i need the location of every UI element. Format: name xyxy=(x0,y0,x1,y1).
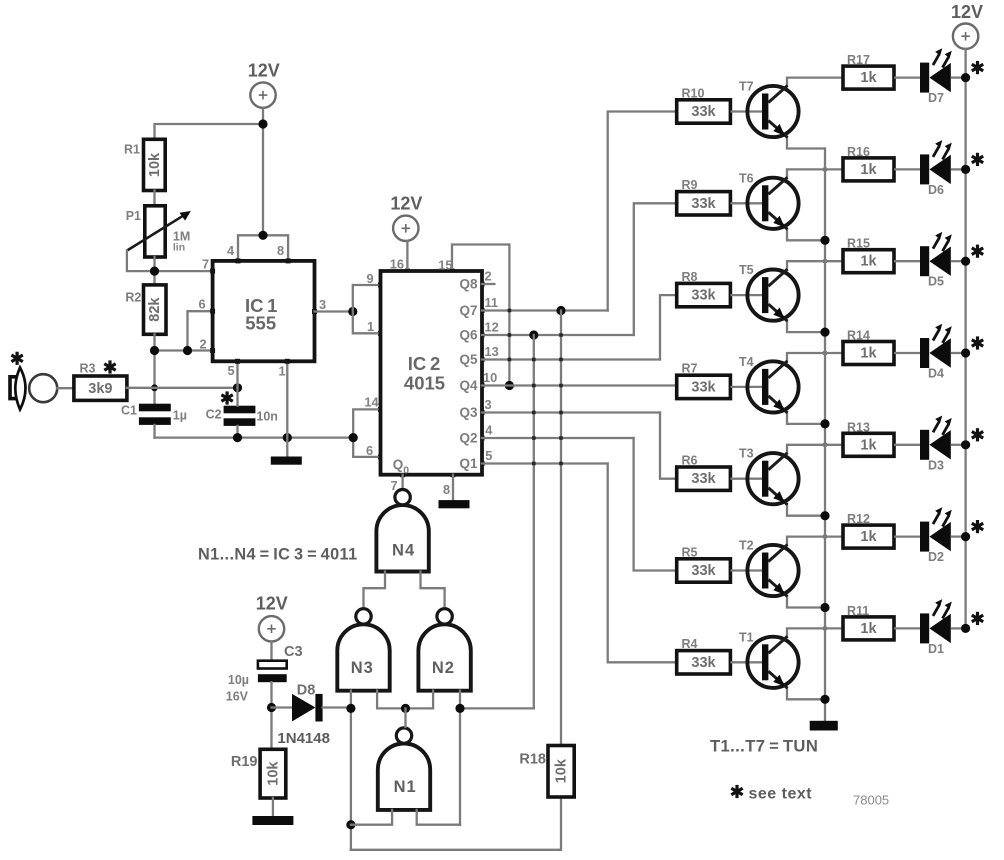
wire bottom rail to R18 xyxy=(351,797,561,850)
resistor R16 xyxy=(843,145,894,181)
node T7 emitter xyxy=(820,236,829,245)
gate N3 xyxy=(337,609,389,691)
svg-text:Q3: Q3 xyxy=(459,405,478,420)
node N1 output xyxy=(401,704,410,713)
svg-text:T5: T5 xyxy=(739,263,754,277)
svg-text:P1: P1 xyxy=(126,209,141,223)
svg-text:6: 6 xyxy=(198,297,205,312)
pin ticks IC2 xyxy=(378,269,485,478)
node C2/gnd xyxy=(233,433,242,442)
svg-text:R9: R9 xyxy=(682,178,698,192)
potentiometer P1 xyxy=(126,206,191,257)
wire N3 right input to N1 output xyxy=(377,691,433,709)
svg-text:D2: D2 xyxy=(928,550,944,564)
node N3 left / D8 xyxy=(346,704,355,713)
transistor T6 xyxy=(730,169,843,240)
svg-text:8: 8 xyxy=(443,482,450,497)
resistor R9 xyxy=(677,178,731,215)
wire Q7 up to R10 xyxy=(608,112,677,311)
svg-text:D3: D3 xyxy=(928,458,944,472)
svg-text:9: 9 xyxy=(366,271,373,286)
asterisk D6 xyxy=(972,153,983,166)
wire ground rail xyxy=(155,436,354,438)
resistor R12 xyxy=(843,512,894,548)
svg-text:R4: R4 xyxy=(682,637,698,651)
transistor T7 xyxy=(730,78,843,149)
wire Q6 down to gate rail xyxy=(460,335,534,708)
svg-text:8: 8 xyxy=(277,243,284,258)
svg-text:10µ: 10µ xyxy=(228,673,249,687)
svg-text:7: 7 xyxy=(202,257,209,272)
svg-text:lin: lin xyxy=(173,242,185,254)
wire Q7 down to R18 xyxy=(560,311,562,746)
wire Q2 down to R5 xyxy=(634,438,677,571)
svg-text:5: 5 xyxy=(485,448,492,463)
node D6 rail xyxy=(961,165,970,174)
IC1 555 xyxy=(213,261,315,361)
svg-text:4015: 4015 xyxy=(404,373,445,394)
input probe symbol xyxy=(10,352,57,410)
gate N1 xyxy=(378,728,430,810)
node T4 emitter xyxy=(820,511,829,520)
capacitor C1 xyxy=(121,404,187,425)
svg-text:R17: R17 xyxy=(847,53,870,67)
wire Q8 stub pin2 xyxy=(482,283,494,285)
wire N1 output bubble xyxy=(404,708,406,727)
transistor T3 xyxy=(730,445,843,516)
svg-text:33k: 33k xyxy=(691,379,716,395)
svg-text:D7: D7 xyxy=(928,91,944,105)
wire D8 anode xyxy=(272,706,293,708)
IC2 4015 xyxy=(381,271,483,477)
LED D6 xyxy=(894,140,966,197)
wire crossing blobs xyxy=(508,168,827,631)
svg-text:Q6: Q6 xyxy=(459,328,478,343)
wire bracket pins 14/6 xyxy=(353,409,380,457)
wire C3 to D8 node xyxy=(270,682,272,749)
svg-text:R7: R7 xyxy=(682,362,698,376)
node D5 rail xyxy=(961,257,970,266)
resistor R1 xyxy=(124,139,165,190)
svg-text:R18: R18 xyxy=(519,752,546,768)
wire Q4 pin10 row to R7 xyxy=(482,384,677,386)
wire N3 input left / N1 rail xyxy=(350,691,352,850)
svg-text:R19: R19 xyxy=(231,754,258,770)
ground emitter rail xyxy=(810,721,838,731)
wire D8 cathode to gate rail xyxy=(323,706,351,708)
svg-text:10: 10 xyxy=(483,370,497,385)
gate N2 xyxy=(418,609,470,691)
asterisk D3 xyxy=(972,428,983,441)
svg-text:33k: 33k xyxy=(691,471,716,487)
wire Q3 pin3 row xyxy=(482,411,660,413)
node clock bracket xyxy=(348,307,357,316)
svg-text:1k: 1k xyxy=(860,621,877,637)
node pin6 bracket xyxy=(183,346,192,355)
asterisk D5 xyxy=(972,245,983,258)
wire pin 7 of IC1 xyxy=(155,270,213,272)
resistor R4 xyxy=(677,637,731,674)
wire R19 to ground xyxy=(272,798,274,816)
wire Q2 pin4 row xyxy=(482,437,634,439)
wire pins 4,8 top bracket xyxy=(238,235,288,261)
wire pin 1 down xyxy=(286,361,288,456)
svg-text:2: 2 xyxy=(199,337,206,352)
wire Q1 down to R4 xyxy=(608,464,677,663)
wire supply to rail xyxy=(262,108,264,236)
svg-text:4: 4 xyxy=(485,423,493,438)
LED D4 xyxy=(894,324,966,381)
svg-text:33k: 33k xyxy=(691,563,716,579)
svg-text:12: 12 xyxy=(485,320,499,335)
svg-text:C1: C1 xyxy=(121,404,137,418)
wire input to R3 xyxy=(57,387,74,389)
12V supply top-right xyxy=(951,2,983,49)
wire N4 input left to N3 xyxy=(364,572,386,610)
capacitor C2 xyxy=(206,391,278,426)
svg-text:12V: 12V xyxy=(951,2,983,22)
svg-text:3: 3 xyxy=(319,297,326,312)
svg-text:1k: 1k xyxy=(860,162,877,178)
node gnd/bracket14-6 xyxy=(349,433,358,442)
svg-text:T6: T6 xyxy=(739,171,754,185)
wire N2 right input down xyxy=(459,691,461,825)
svg-text:D6: D6 xyxy=(928,183,944,197)
svg-text:T4: T4 xyxy=(739,355,754,369)
svg-text:4: 4 xyxy=(227,243,235,258)
wire 12V LED rail xyxy=(964,49,966,629)
asterisk D2 xyxy=(972,520,983,533)
svg-text:N3: N3 xyxy=(351,659,374,677)
svg-text:555: 555 xyxy=(245,313,276,334)
wire Q6 up to R9 xyxy=(634,203,677,335)
node P1/R2/pin7 xyxy=(150,267,159,276)
svg-text:12V: 12V xyxy=(248,61,280,81)
svg-text:33k: 33k xyxy=(691,104,716,120)
resistor R15 xyxy=(843,237,894,273)
12V supply IC2 xyxy=(390,194,422,242)
wire Q5 up to R8 xyxy=(660,295,677,359)
svg-text:N4: N4 xyxy=(392,542,415,560)
LED D5 xyxy=(894,232,966,289)
node D4 rail xyxy=(961,348,970,357)
svg-text:T1: T1 xyxy=(739,630,754,644)
svg-text:N2: N2 xyxy=(432,659,455,677)
svg-text:1N4148: 1N4148 xyxy=(277,730,330,747)
LED D7 xyxy=(894,48,966,105)
node 12V/pin4-8 xyxy=(258,231,267,240)
wire N1 input right xyxy=(417,810,460,825)
wire Q3 down to R6 xyxy=(660,413,677,479)
svg-text:3: 3 xyxy=(485,397,492,412)
node supply/R1 xyxy=(258,119,267,128)
svg-text:N1...N4 = IC 3 = 4011: N1...N4 = IC 3 = 4011 xyxy=(198,546,358,564)
node pin15/Q4 xyxy=(505,381,514,390)
node C3/D8/R19 xyxy=(267,703,276,712)
svg-text:R14: R14 xyxy=(847,329,870,343)
wire emitter rail xyxy=(824,149,826,721)
asterisk see text xyxy=(731,785,742,798)
node pin1/gnd xyxy=(283,433,292,442)
asterisk D7 xyxy=(972,61,983,74)
svg-text:10k: 10k xyxy=(554,758,570,783)
resistor R19 xyxy=(231,749,286,798)
svg-text:78005: 78005 xyxy=(853,793,889,808)
svg-text:D4: D4 xyxy=(928,367,944,381)
wire IC1 pin3 to IC2 clock bracket xyxy=(315,310,353,312)
wire pin 5 down xyxy=(236,361,238,388)
wire C2 stubs xyxy=(236,388,238,406)
node D3 rail xyxy=(961,440,970,449)
node T5 emitter xyxy=(820,419,829,428)
resistor R10 xyxy=(677,86,731,123)
svg-text:1: 1 xyxy=(278,364,285,379)
svg-text:R16: R16 xyxy=(847,145,870,159)
wire bracket to pin 6 xyxy=(188,311,213,350)
svg-text:16V: 16V xyxy=(226,690,249,704)
ground IC1 pin1 xyxy=(271,457,302,465)
node D7 rail xyxy=(961,73,970,82)
svg-text:33k: 33k xyxy=(691,196,716,212)
svg-text:1k: 1k xyxy=(860,346,877,362)
svg-text:10n: 10n xyxy=(256,410,278,424)
svg-text:T3: T3 xyxy=(739,447,754,461)
svg-text:R13: R13 xyxy=(847,420,870,434)
ground R19 xyxy=(252,816,293,825)
ground IC2 pin8 xyxy=(439,500,470,508)
wire Q6 pin12 row xyxy=(482,334,634,336)
svg-text:1k: 1k xyxy=(860,529,877,545)
node D1 rail xyxy=(961,624,970,633)
node C2/pin5 xyxy=(233,383,242,392)
svg-text:D5: D5 xyxy=(928,275,944,289)
wire C1 bottom xyxy=(153,425,155,438)
wire Q5 pin13 row xyxy=(482,358,660,360)
svg-text:1k: 1k xyxy=(860,254,877,270)
svg-text:1µ: 1µ xyxy=(173,409,187,423)
svg-text:see text: see text xyxy=(749,786,813,803)
svg-text:12V: 12V xyxy=(390,194,422,214)
svg-text:3k9: 3k9 xyxy=(88,381,112,397)
svg-text:R5: R5 xyxy=(682,545,698,559)
svg-text:R2: R2 xyxy=(125,290,141,304)
svg-text:R11: R11 xyxy=(847,604,869,618)
capacitor C3 xyxy=(226,642,303,704)
svg-text:12V: 12V xyxy=(256,594,288,614)
wire pin 8 to ground xyxy=(452,475,454,500)
wire Q1 pin5 row xyxy=(482,462,608,464)
svg-text:14: 14 xyxy=(364,395,379,410)
transistor T5 xyxy=(730,261,843,332)
svg-text:R1: R1 xyxy=(124,143,140,157)
svg-text:15: 15 xyxy=(438,258,452,273)
svg-text:1: 1 xyxy=(367,319,374,334)
svg-text:Q5: Q5 xyxy=(459,352,478,367)
svg-text:1k: 1k xyxy=(860,70,877,86)
wire P1 wiper bracket xyxy=(127,251,155,272)
wire bracket pins 9/1 xyxy=(353,285,381,333)
node R3 line / C1 xyxy=(151,384,158,391)
node D2 rail xyxy=(961,532,970,541)
svg-text:6: 6 xyxy=(366,443,373,458)
resistor R14 xyxy=(843,329,894,365)
node Q6 branch xyxy=(529,330,538,339)
resistor R18 xyxy=(519,746,574,798)
svg-text:Q1: Q1 xyxy=(459,456,478,471)
transistor T1 xyxy=(730,628,843,699)
resistor R8 xyxy=(677,270,731,307)
node N2 right / Q6 rail xyxy=(455,704,464,713)
resistor R13 xyxy=(843,420,894,456)
node T2 emitter xyxy=(820,695,829,704)
svg-text:IC 2: IC 2 xyxy=(408,353,441,374)
LED D2 xyxy=(894,507,966,564)
transistor T2 xyxy=(730,537,843,608)
svg-text:T7: T7 xyxy=(739,80,754,94)
wire R2 bottom to junction xyxy=(153,334,155,403)
wire R1 to P1 xyxy=(153,191,155,206)
svg-text:Q2: Q2 xyxy=(459,431,477,446)
gate N4 xyxy=(376,490,428,572)
resistor R2 xyxy=(125,285,166,334)
LED D1 xyxy=(894,599,966,656)
transistor T4 xyxy=(730,353,843,424)
svg-text:T2: T2 xyxy=(739,539,754,553)
diode D8 xyxy=(277,683,330,748)
svg-text:10k: 10k xyxy=(265,761,281,786)
svg-text:10k: 10k xyxy=(147,152,163,177)
svg-text:T1...T7 = TUN: T1...T7 = TUN xyxy=(710,737,818,756)
wire pin 15 loop to Q4 xyxy=(452,245,509,386)
svg-text:11: 11 xyxy=(485,295,499,310)
wire N4 input right to N2 xyxy=(421,572,445,610)
wire pin 7 to N4 xyxy=(401,475,403,489)
asterisk D4 xyxy=(972,336,983,349)
svg-text:16: 16 xyxy=(390,257,404,272)
node T3 emitter xyxy=(820,603,829,612)
wire Q7 pin11 row xyxy=(482,309,608,311)
pin ticks IC1 xyxy=(210,258,317,363)
resistor R6 xyxy=(677,454,731,491)
asterisk D1 xyxy=(972,612,983,625)
wire junction to pin 2 xyxy=(155,349,213,351)
wire pin 16 xyxy=(406,241,408,271)
node N1 left branch xyxy=(346,820,355,829)
svg-text:82k: 82k xyxy=(147,297,163,322)
svg-text:33k: 33k xyxy=(691,288,716,304)
svg-text:D8: D8 xyxy=(297,683,316,699)
12V supply top-left xyxy=(248,61,280,108)
node T6 emitter xyxy=(820,328,829,337)
svg-text:33k: 33k xyxy=(691,655,716,671)
12V supply C3 xyxy=(256,594,288,642)
wire P1 bottom to pin7 line xyxy=(153,257,155,285)
wire rail to R1 top xyxy=(155,124,264,139)
svg-text:2: 2 xyxy=(485,269,492,284)
svg-text:R8: R8 xyxy=(682,270,698,284)
svg-text:5: 5 xyxy=(227,363,234,378)
node Q7/R18 xyxy=(556,306,565,315)
svg-text:1k: 1k xyxy=(860,437,877,453)
svg-text:Q7: Q7 xyxy=(459,303,477,318)
resistor R11 xyxy=(843,604,894,640)
svg-text:Q4: Q4 xyxy=(459,378,478,393)
node R2/pin2 xyxy=(150,346,159,355)
svg-text:13: 13 xyxy=(485,344,499,359)
resistor R3 xyxy=(74,360,127,400)
wire R3 to pin5 node xyxy=(127,387,238,389)
resistor R5 xyxy=(677,545,731,582)
svg-text:R12: R12 xyxy=(847,512,870,526)
svg-text:R3: R3 xyxy=(80,362,96,376)
wire N1 input left xyxy=(351,810,392,825)
resistor R17 xyxy=(843,53,894,89)
svg-text:N1: N1 xyxy=(394,778,417,796)
svg-text:R6: R6 xyxy=(682,454,698,468)
LED D3 xyxy=(894,416,966,473)
svg-text:C2: C2 xyxy=(206,408,222,422)
svg-text:D1: D1 xyxy=(928,642,944,656)
svg-text:C3: C3 xyxy=(284,644,303,660)
svg-text:Q8: Q8 xyxy=(459,277,478,292)
resistor R7 xyxy=(677,362,731,399)
svg-text:R10: R10 xyxy=(682,86,705,100)
svg-text:R15: R15 xyxy=(847,237,870,251)
